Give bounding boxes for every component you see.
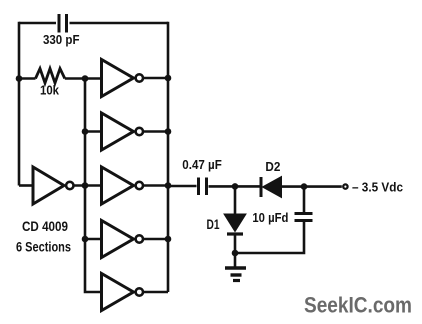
inverter U1f driver bbox=[33, 167, 102, 204]
capacitor 0.47 uF bbox=[199, 178, 207, 196]
inverter U1c bbox=[102, 167, 169, 204]
node U1c output bbox=[165, 182, 172, 189]
svg-text:D2: D2 bbox=[265, 159, 280, 174]
node ground junction bbox=[232, 250, 239, 257]
wire driver inverter input bbox=[19, 184, 33, 187]
wire right rail bbox=[167, 22, 170, 292]
svg-text:0.47 µF: 0.47 µF bbox=[182, 158, 222, 172]
node inverter 4 input bbox=[82, 236, 89, 243]
wire output row to coupling cap bbox=[168, 185, 197, 188]
wire inverter 4 input bbox=[85, 238, 102, 241]
diode D1 bbox=[224, 186, 246, 253]
node resistor-left rail bbox=[16, 75, 23, 82]
ground bbox=[225, 253, 246, 281]
inverter U1a bbox=[102, 60, 169, 97]
capacitor 330 pF bbox=[59, 14, 67, 33]
wire cap to D1 node bbox=[209, 185, 260, 188]
terminal output bbox=[343, 184, 347, 188]
wire capacitor to right rail bbox=[70, 22, 169, 25]
wire D2 to cap node bbox=[282, 185, 342, 188]
node U1b output bbox=[165, 128, 172, 135]
node inverter 2 input bbox=[82, 128, 89, 135]
svg-text:6 Sections: 6 Sections bbox=[16, 240, 71, 255]
svg-text:CD 4009: CD 4009 bbox=[22, 218, 68, 234]
svg-text:10 µFd: 10 µFd bbox=[252, 211, 288, 225]
node U1d output bbox=[165, 236, 172, 243]
svg-text:330 pF: 330 pF bbox=[43, 33, 80, 47]
svg-text:10k: 10k bbox=[40, 83, 60, 98]
node middle rail top bbox=[82, 75, 89, 82]
node driver output / rail bbox=[82, 182, 89, 189]
svg-text:D1: D1 bbox=[207, 217, 220, 232]
wire resistor to inverter 1 input bbox=[65, 77, 102, 80]
node D1 branch bbox=[232, 183, 239, 190]
svg-text:SeekIC.com: SeekIC.com bbox=[304, 293, 412, 318]
wire left rail bbox=[18, 22, 21, 186]
node U1a output bbox=[165, 75, 172, 82]
capacitor 10 uFd bbox=[235, 187, 313, 253]
inverter U1e bbox=[102, 274, 169, 311]
wire inverter 2 input bbox=[85, 130, 102, 133]
svg-text:– 3.5 Vdc: – 3.5 Vdc bbox=[352, 179, 403, 194]
wire top-left horizontal to capacitor bbox=[19, 22, 56, 25]
wire resistor row left bbox=[19, 77, 36, 80]
wire middle rail bbox=[85, 79, 102, 293]
resistor 10k bbox=[36, 69, 65, 84]
inverter U1b bbox=[102, 113, 169, 150]
diode D2 bbox=[261, 177, 282, 198]
inverter U1d bbox=[102, 221, 169, 258]
node filter cap branch bbox=[301, 183, 308, 190]
